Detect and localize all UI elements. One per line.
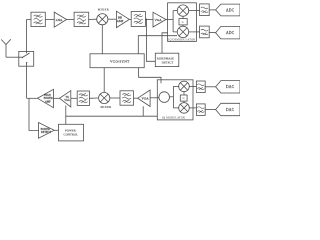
wire: [45, 19, 54, 21]
wire to ADC2: [209, 31, 216, 33]
svg-text:MIXER: MIXER: [101, 105, 112, 109]
wire VCO to RX mixer LO: [101, 25, 103, 54]
wire: [108, 18, 117, 20]
VCO / synthesizer: [90, 54, 144, 68]
wire: [54, 97, 60, 99]
gain control trunk wire: [66, 115, 158, 117]
svg-text:MIXER: MIXER: [98, 8, 109, 12]
svg-text:VGA: VGA: [64, 99, 70, 102]
filter FL4 (I lowpass): [200, 4, 210, 16]
svg-text:ADC: ADC: [226, 8, 235, 12]
ADC 1: [216, 4, 240, 16]
demod mixer Q: [177, 26, 188, 37]
modulator mixer Q: [179, 103, 190, 114]
TX mixer: [99, 92, 110, 103]
filter FL6 (TX): [77, 91, 89, 105]
90 degree phase shifter (demod): [179, 16, 187, 26]
wire filter to modulator Q: [189, 107, 196, 109]
DAC 1: [216, 81, 240, 93]
filter FL8 (I DAC lowpass): [196, 81, 205, 93]
wire demod I out to filter: [189, 10, 200, 12]
wire DAC1 to filter: [205, 86, 216, 88]
svg-text:ADC: ADC: [226, 31, 235, 35]
filter FL3: [131, 12, 145, 27]
svg-text:DAC: DAC: [226, 108, 235, 112]
branch to VGA TX2: [142, 106, 144, 116]
svg-text:DAC: DAC: [226, 85, 235, 89]
IF amplifier: [116, 11, 129, 27]
wire to modulator: [150, 97, 159, 99]
wire switch to RX row: [27, 20, 31, 52]
IQ demodulator U1: [168, 3, 197, 42]
filter FL2: [74, 12, 89, 26]
filter FL5 (Q lowpass): [200, 26, 210, 38]
svg-text:AMP: AMP: [45, 101, 51, 104]
filter FL9 (Q DAC lowpass): [196, 104, 205, 116]
modulator bus: [170, 86, 179, 108]
DAC 2: [216, 103, 240, 115]
T/R switch S1: [19, 51, 34, 66]
RSSI / phase detector: [155, 53, 179, 66]
svg-text:IQ MODULATOR: IQ MODULATOR: [162, 117, 185, 120]
demod input bus: [173, 11, 177, 32]
90 degree phase shifter (modulator): [180, 92, 187, 103]
wire junction to RSSI input: [146, 19, 155, 61]
wire: [71, 97, 77, 99]
wire with junction node: [145, 18, 153, 20]
wire: [90, 97, 98, 99]
wire detector to power control: [54, 129, 58, 131]
filter FL1 (RX band filter): [31, 12, 45, 26]
power control: [59, 124, 84, 141]
LNA amplifier: [54, 12, 66, 27]
VGA amplifier (TX2): [138, 90, 151, 107]
wire VCO to demod LO: [138, 36, 177, 54]
modulator mixer I: [179, 81, 190, 92]
svg-text:DETECT: DETECT: [162, 61, 174, 65]
filter FL7 (TX): [120, 91, 134, 105]
svg-text:VGA: VGA: [155, 18, 163, 22]
wire demod to RSSI detector: [162, 33, 168, 53]
ADC 2: [216, 26, 240, 39]
wire VCO to modulator LO: [139, 68, 161, 84]
TX VGA amplifier: [60, 91, 71, 107]
svg-text:DETECT: DETECT: [41, 131, 51, 134]
wire: [110, 97, 120, 99]
svg-text:VGA: VGA: [142, 97, 150, 101]
antenna: [1, 39, 11, 57]
wire: [67, 19, 75, 21]
svg-text:LNA: LNA: [56, 18, 63, 22]
wire: [89, 18, 97, 20]
wire tap to power detector: [29, 98, 39, 130]
svg-text:VCO/SYNT: VCO/SYNT: [110, 60, 130, 64]
svg-text:IQ DEMODULATOR: IQ DEMODULATOR: [168, 38, 195, 41]
wire: [166, 19, 173, 21]
svg-text:90: 90: [182, 98, 184, 100]
demod mixer I: [177, 5, 188, 16]
high power amplifier: [38, 89, 54, 107]
wire: [129, 18, 131, 20]
power detector: [39, 123, 55, 139]
wire VCO to TX mixer LO: [103, 68, 105, 93]
wire power control to TX VGA: [65, 106, 67, 125]
svg-text:90: 90: [182, 22, 184, 24]
VGA amplifier (RX): [153, 12, 166, 27]
wire switch to TX row: [26, 66, 28, 98]
wire demod Q out to filter: [189, 31, 200, 33]
summing node: [159, 92, 170, 103]
wire to ADC1: [209, 9, 216, 11]
wire: [134, 97, 138, 99]
RX mixer: [97, 14, 108, 25]
wire antenna to switch: [6, 56, 19, 58]
IQ modulator U2: [157, 80, 193, 120]
svg-text:CONTROL: CONTROL: [64, 133, 79, 137]
svg-text:AMP: AMP: [117, 19, 124, 23]
wire filter to modulator I: [189, 85, 196, 87]
wire DAC2 to filter: [205, 109, 216, 111]
